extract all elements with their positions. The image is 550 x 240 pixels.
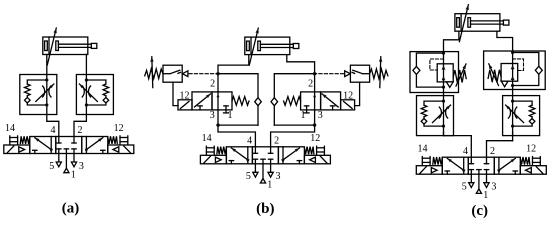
5/3 valve B8 <box>200 133 330 190</box>
svg-text:1: 1 <box>301 110 306 121</box>
svg-text:12: 12 <box>343 91 353 102</box>
adjustable spring <box>453 70 466 83</box>
wire node B to right check valve branch <box>274 74 314 125</box>
3/2 valve B7 (mirrored) <box>284 92 355 113</box>
relief vent triangle <box>501 81 508 87</box>
wire valve B7 port 3 to valve port 2 <box>271 110 315 147</box>
wire flow valve A2 to port 4 <box>47 115 59 137</box>
wire regulator C3 to flow valve C5 <box>512 90 514 96</box>
check valve poppet <box>535 66 542 74</box>
cylinder A1 <box>43 28 97 65</box>
5/3 valve C6 <box>416 144 546 201</box>
wire valve B6 port 3 to valve port 4 <box>218 110 255 147</box>
junction below valve B6 <box>216 123 219 126</box>
flow control valve C4 <box>417 96 454 136</box>
enclosure box <box>484 51 546 90</box>
node B junction <box>313 72 316 75</box>
wire cylinder C1 left port to regulator <box>444 31 459 51</box>
flow control valve C5 (mirrored) <box>503 96 540 136</box>
wire regulator C2 to flow valve C4 <box>443 93 445 96</box>
wire flow valve C4 to port 4 <box>444 136 472 158</box>
wire flow valve C5 to port 2 <box>487 141 513 158</box>
dashed pilot line <box>513 59 524 71</box>
dashed pilot line <box>430 59 444 70</box>
wire cylinder A1 left port to flow valve <box>46 55 48 75</box>
svg-text:12: 12 <box>180 91 190 102</box>
enclosure box <box>410 52 459 93</box>
svg-text:2: 2 <box>308 79 313 90</box>
svg-text:3: 3 <box>318 110 323 121</box>
svg-text:(c): (c) <box>471 203 488 219</box>
wire cylinder C1 right port to regulator <box>497 31 513 51</box>
junction dots <box>442 52 445 55</box>
wire flow valve A3 to port 2 <box>74 115 86 137</box>
main flow line <box>443 52 445 93</box>
adjustable spring <box>488 70 501 83</box>
wire cylinder B1 left port to node A <box>218 55 249 92</box>
cylinder B1 <box>245 28 299 65</box>
flow arrows <box>442 65 446 69</box>
wire cylinder B1 right port to node B <box>287 55 315 92</box>
spring adjustment arrow <box>489 64 499 86</box>
flow arrows <box>511 65 515 69</box>
relief vent triangle <box>446 82 453 88</box>
check valve poppet <box>413 66 420 74</box>
wire flow valve C5 stub <box>512 132 514 140</box>
wire junction to check branch B2 <box>218 124 258 126</box>
svg-text:(a): (a) <box>62 200 80 216</box>
check valve B3 <box>271 98 278 106</box>
wire junction to check branch B3 <box>274 124 314 126</box>
wire flow valve C4 stub <box>443 132 445 135</box>
wire node A to left check valve branch <box>218 74 258 125</box>
flow control valve A2 <box>20 75 57 115</box>
svg-text:3: 3 <box>210 110 215 121</box>
spring adjustment arrow <box>456 64 466 86</box>
node A junction <box>216 72 219 75</box>
pressure regulator assembly C2 <box>410 52 466 93</box>
junction dots <box>511 51 514 54</box>
svg-text:1: 1 <box>228 110 233 121</box>
main flow line <box>512 51 514 90</box>
regulator body <box>501 64 518 82</box>
pressure switch B5 (mirrored) <box>315 57 388 106</box>
svg-text:2: 2 <box>210 79 215 90</box>
check valve B2 <box>255 98 262 106</box>
5/3 valve A4 <box>4 123 134 180</box>
3/2 valve B6 <box>178 92 249 113</box>
bypass branch wire <box>416 53 443 66</box>
pressure regulator assembly C3 (mirrored) <box>484 51 546 90</box>
bypass branch wire <box>513 53 539 67</box>
cylinder C1 <box>455 5 509 42</box>
regulator body <box>437 64 453 82</box>
pressure switch B4 <box>145 57 218 106</box>
flow control valve A3 (mirrored) <box>76 75 113 115</box>
junction below valve B7 <box>313 123 316 126</box>
svg-text:(b): (b) <box>256 201 274 217</box>
wire cylinder A1 right port to flow valve <box>85 55 87 75</box>
